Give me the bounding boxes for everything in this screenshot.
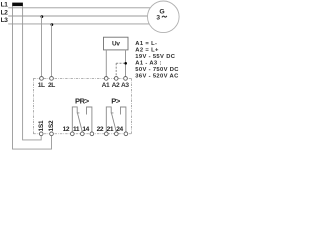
terminal A1 [104,77,108,81]
svg-text:A1 = L-: A1 = L- [135,41,157,47]
wire L2 line [8,15,148,17]
wire dashed A2-A3 link horizontal [116,62,125,64]
svg-text:A2 = L+: A2 = L+ [135,47,159,53]
svg-text:1L: 1L [38,82,45,89]
node labels 12 11 14 [63,126,124,133]
junction dot on L3 [51,23,54,26]
junction dot on L2 [41,15,44,18]
contact CO2: movable arm from 21 [112,113,117,132]
svg-text:Uv: Uv [112,41,120,48]
svg-text:PR>: PR> [75,97,90,106]
generator ~ mark [162,16,167,18]
svg-text:11: 11 [73,126,80,133]
terminal 1S2 [50,132,54,136]
wire Uv left leg to A1 [105,50,107,77]
svg-text:L2: L2 [1,9,9,16]
svg-text:12: 12 [63,126,70,133]
wire L2 tap down to 1L [41,16,43,76]
device boundary dash-dot bottom [33,133,131,135]
contact CO1: NO branch 14 [87,107,92,132]
svg-text:P>: P> [111,97,121,106]
contact CO2: NC branch 22 [106,107,113,132]
svg-text:A3: A3 [121,82,129,89]
svg-text:21: 21 [107,126,114,133]
svg-text:A1: A1 [102,82,110,89]
terminal 11 [80,132,84,136]
right text block: supply ratings [135,41,179,80]
wire from shunt right end down to 1S1 [23,6,42,140]
wire from shunt left end down to 1S2 [13,6,52,149]
wire L1 line [8,7,151,9]
terminal 24 [124,132,128,136]
terminal 21 [114,132,118,136]
generator G1 circle [148,1,180,33]
terminal A3 [124,77,128,81]
wire L3 tap down to 2L [51,24,53,76]
terminal 12 [70,132,74,136]
terminal 22 [104,132,108,136]
wire L3 line [8,23,149,25]
svg-text:G: G [159,8,164,15]
terminal 1L [40,77,44,81]
wire dashed A2 link vertical [115,63,117,76]
device boundary dash-dot left [32,78,34,133]
svg-text:L1: L1 [1,2,9,9]
shunt bar on L1 [12,3,23,7]
svg-text:1S1: 1S1 [38,120,45,132]
contact CO2: NO branch 24 [121,107,126,132]
svg-text:A1 - A3 :: A1 - A3 : [135,60,161,66]
svg-text:2L: 2L [48,82,55,89]
wire Uv right leg to A3 [125,50,127,77]
svg-text:3: 3 [156,14,160,21]
terminal 1S1 [39,132,43,136]
svg-text:A2: A2 [112,82,120,89]
contact CO1: NC branch 12 [72,107,79,132]
svg-text:L3: L3 [1,17,9,24]
svg-text:50V - 750V DC: 50V - 750V DC [135,67,179,73]
svg-text:22: 22 [97,126,104,133]
junction dot on A3 leg [124,62,127,65]
svg-text:1S2: 1S2 [48,120,55,132]
svg-text:19V - 55V DC: 19V - 55V DC [135,54,175,60]
svg-text:36V - 520V AC: 36V - 520V AC [135,73,179,79]
terminal 14 [90,132,94,136]
power supply box Uv [104,37,129,50]
terminal 2L [50,77,54,81]
contact CO1: movable arm from 11 [78,113,83,132]
device boundary dash-dot right [130,78,132,133]
device boundary dash-dot top [33,77,131,79]
terminal A2 [114,77,118,81]
